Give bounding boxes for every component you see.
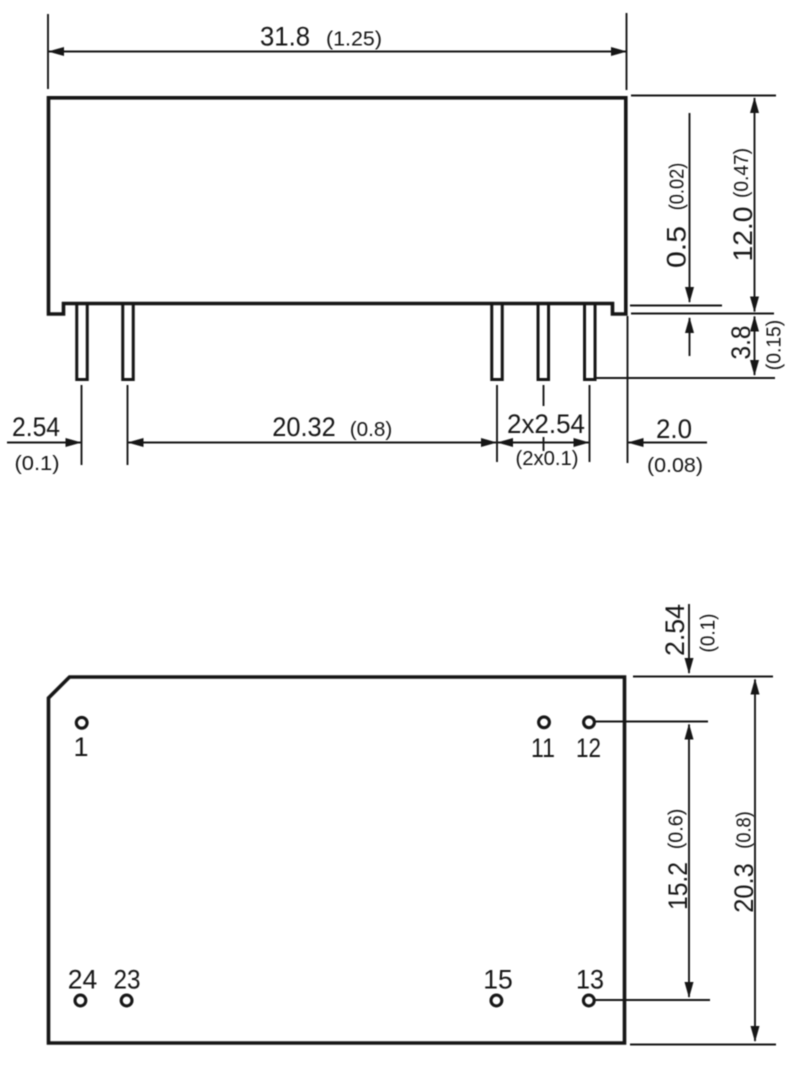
svg-text:2.0: 2.0 — [656, 414, 692, 444]
dim 0.5 lower arrow — [689, 318, 691, 356]
extension line pin P2 — [127, 385, 129, 465]
extension line right of 31.8 dim — [626, 13, 628, 90]
svg-text:(0.8): (0.8) — [350, 419, 393, 441]
dim 2.0 tail arrow — [629, 442, 708, 444]
svg-text:2.54: 2.54 — [12, 412, 60, 442]
extension line pin P4 upper — [543, 385, 545, 406]
svg-text:12.0: 12.0 — [728, 207, 758, 262]
extension line pin 12 row — [596, 721, 709, 723]
pin 1 hole — [76, 717, 87, 728]
extension line pin P1 — [81, 385, 83, 465]
svg-text:15: 15 — [483, 965, 513, 995]
dimension line 3.8 — [754, 317, 756, 376]
extension line pin P4 tick — [543, 437, 545, 451]
svg-text:2.54: 2.54 — [660, 604, 690, 656]
extension line pin tip plane — [596, 377, 775, 379]
pin 24 hole — [75, 995, 86, 1006]
svg-text:12: 12 — [576, 733, 601, 763]
dimension line 12.0 — [754, 98, 756, 312]
pin 23 hole — [121, 995, 132, 1006]
extension line left of 31.8 dim — [47, 14, 49, 89]
pin P3 side view — [492, 304, 503, 380]
svg-text:(0.1): (0.1) — [15, 453, 60, 475]
svg-text:(0.02): (0.02) — [667, 163, 689, 211]
svg-text:(0.8): (0.8) — [734, 811, 756, 849]
extension line pin P3 — [496, 385, 498, 462]
svg-text:(0.6): (0.6) — [666, 809, 688, 850]
dim 2.54 bottom view arrow — [688, 604, 690, 673]
svg-text:(0.15): (0.15) — [764, 320, 786, 370]
extension line body bottom right — [630, 305, 722, 307]
svg-text:31.8: 31.8 — [260, 22, 310, 52]
dimension line 20.32 — [129, 442, 497, 444]
extension line pin P5 — [589, 385, 591, 462]
svg-text:(1.25): (1.25) — [326, 29, 382, 51]
pin P1 side view — [77, 304, 88, 380]
extension line pin 13 row — [596, 999, 711, 1001]
pin 13 hole — [583, 995, 594, 1006]
svg-text:2x2.54: 2x2.54 — [507, 409, 585, 439]
svg-text:24: 24 — [68, 965, 98, 995]
dimension line 2x2.54 — [498, 442, 589, 444]
package body side view — [49, 98, 626, 314]
pin 11 hole — [539, 717, 550, 728]
pin P4 side view — [538, 304, 549, 380]
pin P5 side view — [585, 304, 596, 380]
pin 12 hole — [584, 717, 595, 728]
package bottom view outline — [49, 677, 625, 1043]
extension line bottom edge — [630, 1044, 776, 1046]
svg-text:(0.1): (0.1) — [697, 614, 719, 653]
svg-text:1: 1 — [73, 732, 88, 762]
svg-text:3.8: 3.8 — [726, 326, 756, 360]
pin P2 side view — [123, 304, 134, 380]
svg-text:(2x0.1): (2x0.1) — [516, 448, 579, 470]
extension line top edge bottom view — [633, 676, 773, 678]
pin 15 hole — [491, 995, 502, 1006]
svg-text:20.3: 20.3 — [729, 863, 759, 913]
svg-text:23: 23 — [114, 965, 141, 995]
svg-text:(0.08): (0.08) — [647, 455, 703, 477]
svg-text:15.2: 15.2 — [663, 862, 693, 910]
svg-text:(0.47): (0.47) — [731, 148, 753, 198]
extension line top-right horizontal — [631, 95, 776, 97]
svg-text:11: 11 — [531, 733, 555, 763]
extension line right edge down — [627, 316, 629, 463]
svg-text:0.5: 0.5 — [662, 226, 692, 268]
svg-text:20.32: 20.32 — [272, 412, 336, 442]
dimension line 20.3 — [754, 680, 756, 1042]
dim 2.54 tail arrow — [7, 442, 81, 444]
svg-text:13: 13 — [576, 965, 604, 995]
dimension line 31.8 — [49, 51, 626, 53]
dim 0.5 upper arrow — [689, 113, 691, 302]
extension line seating plane right — [631, 313, 774, 315]
dimension line 15.2 — [688, 725, 690, 998]
